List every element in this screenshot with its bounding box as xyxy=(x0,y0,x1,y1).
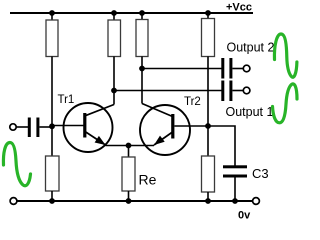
resistor R4 (upper bias resistor, Tr2 base) xyxy=(202,13,215,57)
node: emitter junction xyxy=(126,143,132,149)
node: rail junction R3 xyxy=(139,10,145,16)
wire: input terminal to input capacitor xyxy=(17,126,29,128)
wire: Output 1 capacitor to terminal xyxy=(233,90,244,92)
capacitor C5 (Output 1 coupling) xyxy=(221,81,232,102)
wire: R1 bottom to Tr1 base node to lower resistor xyxy=(51,57,53,157)
svg-text:+Vcc: +Vcc xyxy=(226,2,252,14)
capacitor C3 (Tr2 base decoupling) xyxy=(223,165,247,177)
svg-text:Output 2: Output 2 xyxy=(227,41,275,55)
resistor R2 (Tr1 collector load) xyxy=(108,13,121,57)
node: rail junction R2 xyxy=(111,10,117,16)
resistor R3 (Tr2 collector load) xyxy=(136,13,148,57)
wire: Tr1 collector node to Output 1 capacitor xyxy=(114,90,222,92)
resistor R6 (lower bias resistor, Tr2 base) xyxy=(202,156,215,192)
wire: C3 bottom to 0v rail xyxy=(234,178,236,202)
wire: Tr1 base lead xyxy=(52,125,84,127)
resistor Re (shared emitter resistor) xyxy=(122,157,135,191)
wire: Tr2 collector node to Output 2 capacitor xyxy=(142,68,222,70)
wire: Tr2 base node down to R6 xyxy=(207,126,209,156)
resistor R5 (lower bias resistor, Tr1 base) xyxy=(46,156,60,191)
node: 0v junction R6 xyxy=(205,198,211,204)
svg-text:C3: C3 xyxy=(252,166,269,181)
wire: shared emitter rail xyxy=(106,145,155,147)
svg-text:Output 1: Output 1 xyxy=(226,105,274,119)
wire: R3 bottom to Tr2 collector node xyxy=(141,57,143,104)
wire: Re bottom to 0v rail xyxy=(128,191,130,201)
capacitor C1 (input coupling) xyxy=(28,118,40,138)
wire: R4 bottom to Tr2 base node xyxy=(207,57,209,127)
Output 2 signal sine wave (green) xyxy=(274,34,296,77)
node: Tr1 base junction xyxy=(49,123,55,129)
svg-text:Tr1: Tr1 xyxy=(58,94,75,106)
terminal: input open circle xyxy=(10,124,16,130)
node: rail junction R4 xyxy=(205,10,211,16)
wire: +Vcc top supply rail xyxy=(10,12,253,14)
svg-text:0v: 0v xyxy=(238,210,251,222)
wire: 0v bottom rail xyxy=(17,200,253,202)
terminal: 0v open circle left end xyxy=(10,198,17,205)
terminal: Output 1 open circle xyxy=(243,87,250,94)
node: Tr1 collector / Output 1 junction xyxy=(111,88,117,94)
node: 0v junction Re xyxy=(126,198,132,204)
terminal: Output 2 open circle xyxy=(243,65,250,72)
node: Tr2 base junction xyxy=(205,123,211,129)
node: 0v junction R5 xyxy=(49,198,55,204)
terminal: 0v open circle right end xyxy=(253,198,260,205)
transistor Q1 Tr1 (NPN) xyxy=(64,103,115,152)
wire: Output 2 capacitor to terminal xyxy=(233,68,244,70)
input signal sine wave (green) xyxy=(3,143,30,186)
wire: R5 bottom to 0v rail xyxy=(51,191,53,201)
node: rail junction R1 xyxy=(49,10,55,16)
wire: Tr2 base lead to C3 corner xyxy=(175,126,236,166)
capacitor C4 (Output 2 coupling) xyxy=(221,58,232,79)
wire: R6 bottom to 0v rail xyxy=(207,192,209,201)
wire: input capacitor to Tr1 base node xyxy=(40,126,53,128)
node: 0v junction C3 xyxy=(232,198,238,204)
resistor R1 (upper bias resistor, Tr1 base) xyxy=(46,13,58,57)
transistor Q2 Tr2 (NPN, mirrored) xyxy=(140,104,190,156)
wire: R2 bottom to Tr1 collector xyxy=(113,57,115,105)
node: Tr2 collector / Output 2 junction xyxy=(139,66,145,72)
svg-text:Tr2: Tr2 xyxy=(184,96,201,108)
wire: emitter node down to Re xyxy=(128,146,130,158)
Output 1 signal sine wave (green) xyxy=(273,84,298,123)
svg-text:Re: Re xyxy=(139,172,157,188)
